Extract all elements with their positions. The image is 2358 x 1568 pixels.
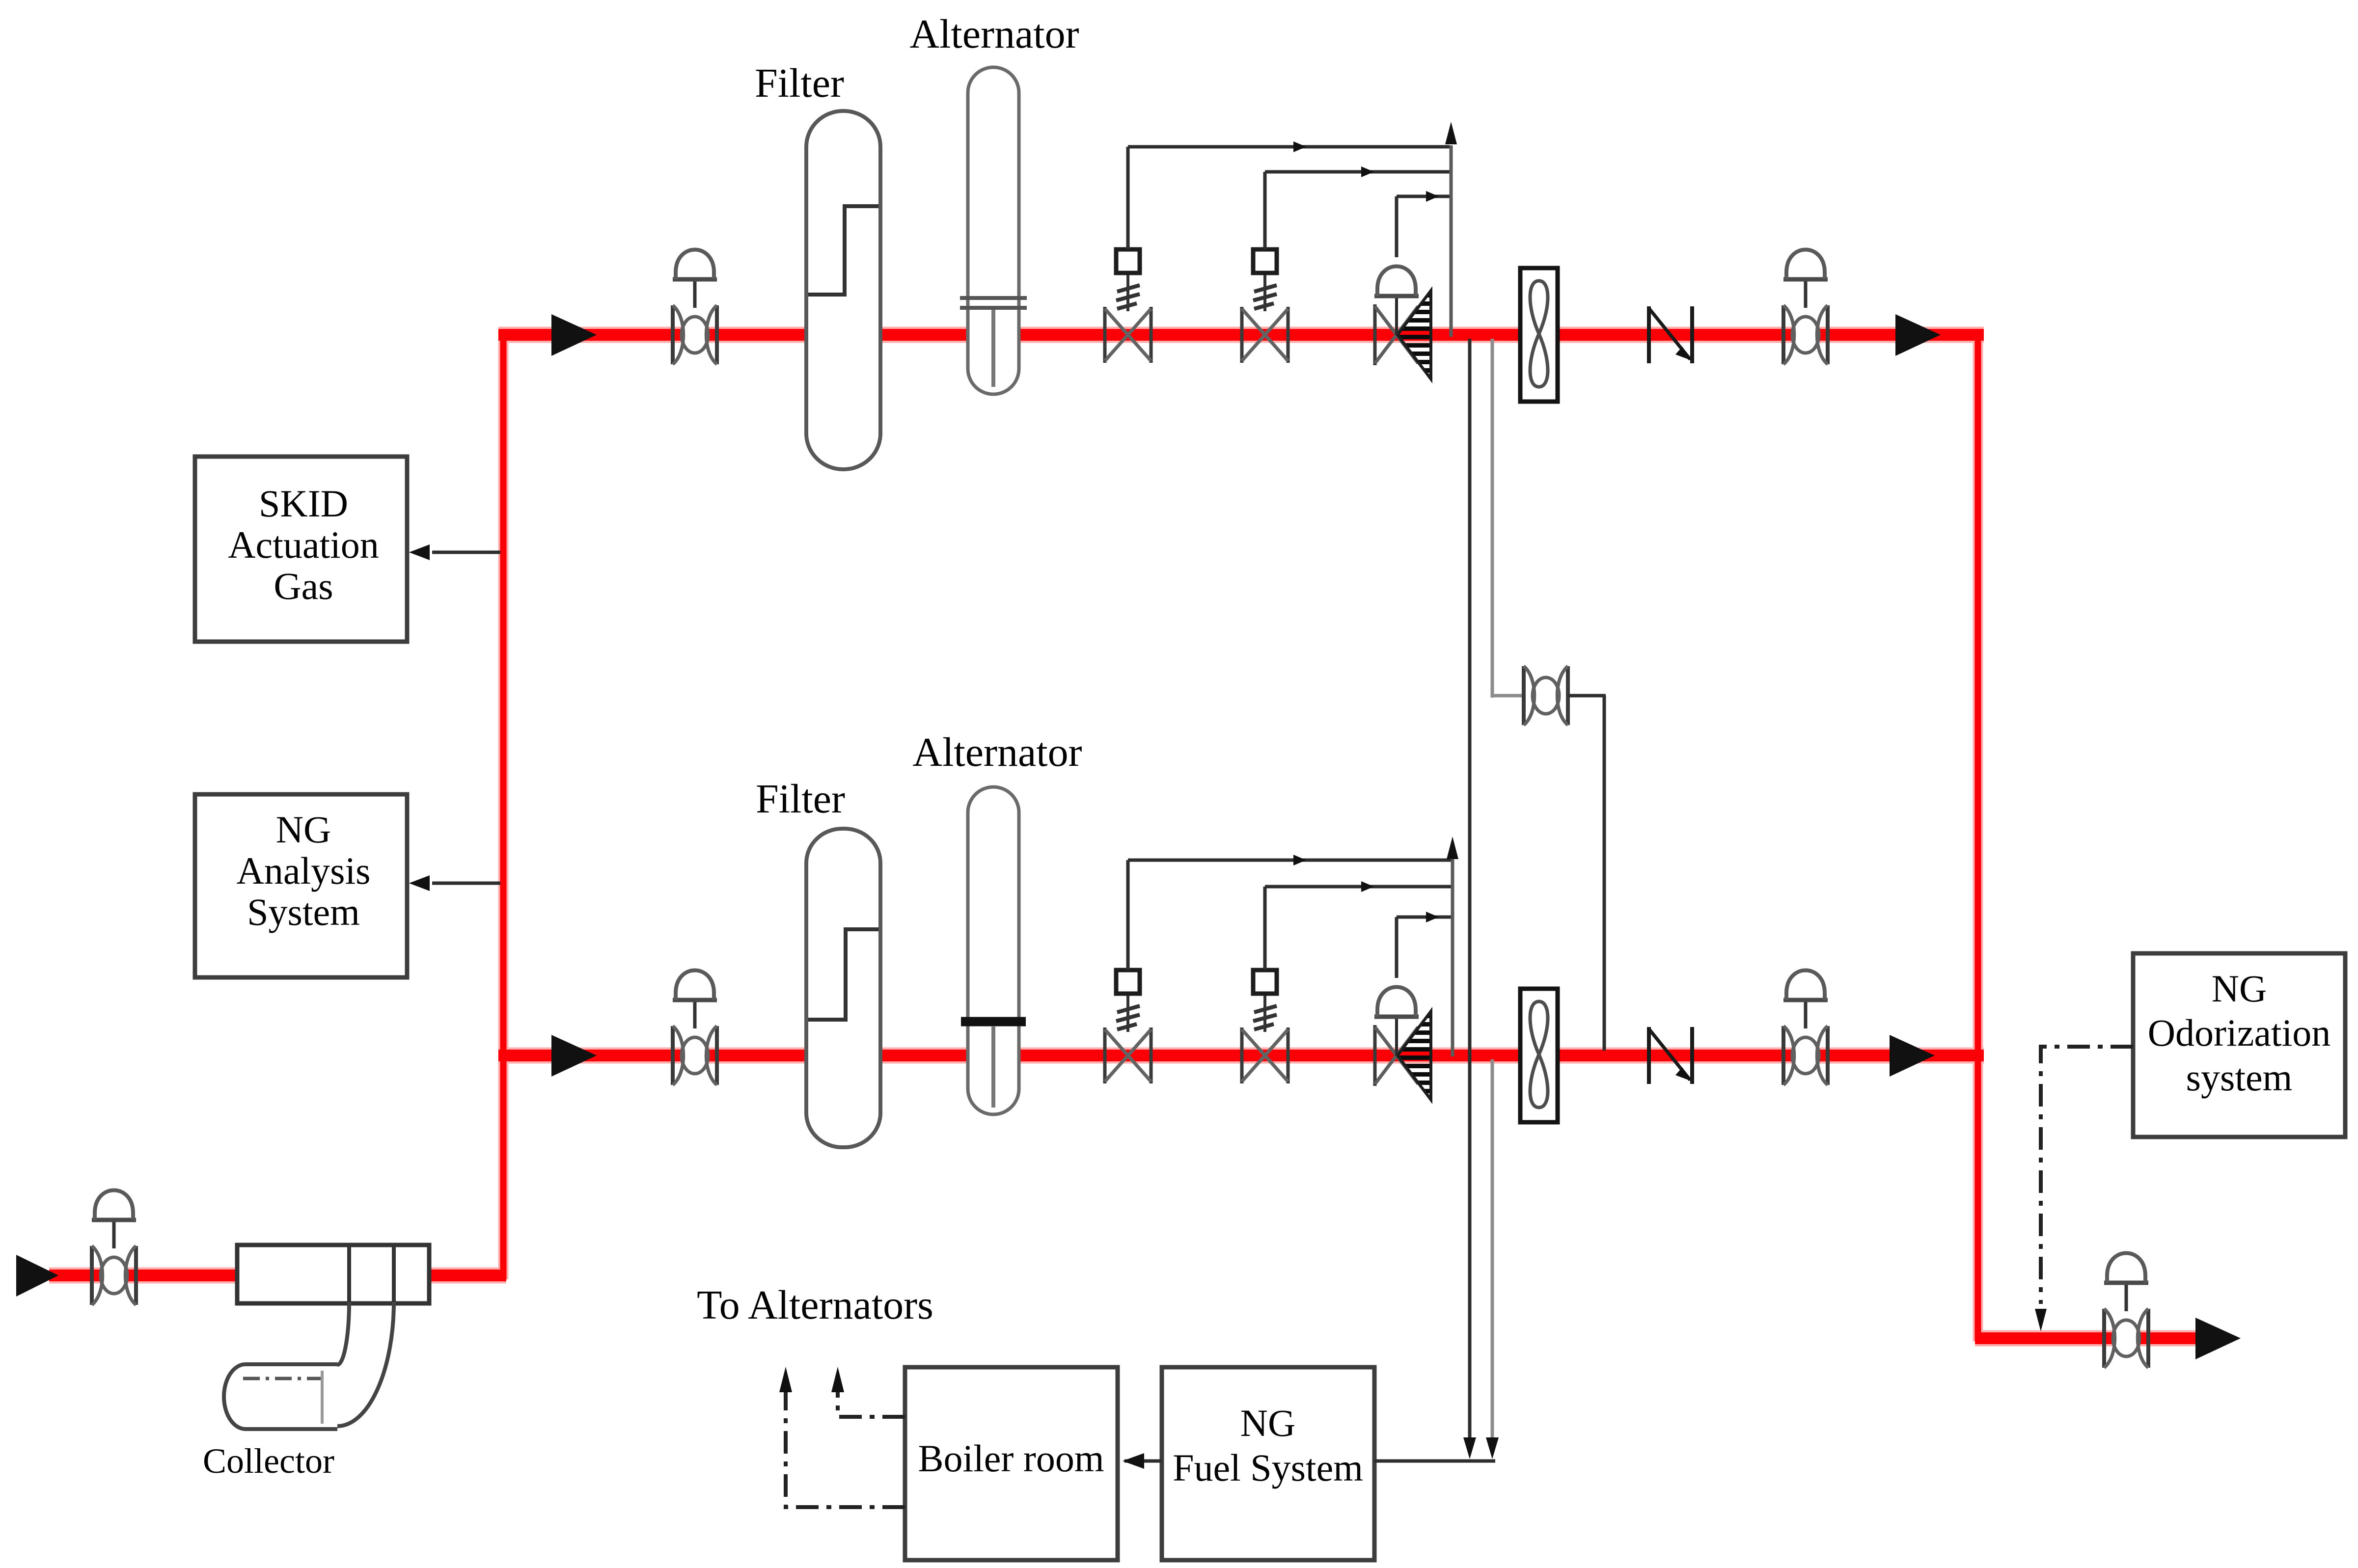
text SKID Actuation Gas <box>228 482 379 607</box>
svg-text:NG: NG <box>2212 967 2267 1010</box>
svg-text:To Alternators: To Alternators <box>697 1282 933 1328</box>
wire red inlet line <box>49 1270 506 1281</box>
arrow into SKID box <box>409 544 430 560</box>
flow arrow outlet <box>2195 1318 2241 1359</box>
svg-text:NG: NG <box>276 808 331 851</box>
signal drop line to fuel system from top train <box>1468 339 1472 1441</box>
regulator top train with dome actuator <box>1374 267 1431 379</box>
wire red outlet line <box>1975 1332 2200 1344</box>
flow arrow inlet <box>16 1255 58 1297</box>
svg-text:Gas: Gas <box>274 565 333 607</box>
valve V1 top inlet ball valve with actuator <box>673 250 717 365</box>
svg-text:Filter: Filter <box>755 60 844 106</box>
svg-text:Analysis: Analysis <box>237 849 371 892</box>
wire red halo underlay <box>49 330 2200 1341</box>
flow arrow bottom train end <box>1890 1035 1935 1077</box>
filter vessel bottom train <box>806 829 880 1147</box>
arrow into boiler room <box>1123 1453 1144 1469</box>
signal riser from PSV-B bottom <box>1263 887 1267 970</box>
box NG Odorization system <box>2133 953 2345 1137</box>
bypass line left segment <box>1492 694 1524 698</box>
box NG Fuel System <box>1162 1367 1374 1560</box>
collector body <box>237 1245 429 1303</box>
svg-text:Alternator: Alternator <box>912 730 1082 775</box>
dash-dot odorization line <box>2041 1047 2133 1304</box>
vent arrow up top <box>1445 122 1457 144</box>
sense line C top <box>1397 195 1450 198</box>
flow meter top train <box>1520 268 1558 402</box>
svg-text:Collector: Collector <box>203 1441 334 1481</box>
sense line A bottom <box>1128 859 1451 862</box>
sense line B top <box>1265 170 1450 174</box>
arrow into NG Analysis box <box>409 875 430 891</box>
sense arrow B top <box>1361 166 1374 177</box>
wire red right header vertical <box>1975 330 1981 1341</box>
svg-text:system: system <box>2186 1056 2293 1099</box>
signal drop from bottom train to fuel system <box>1491 1059 1494 1441</box>
valve PSV-A bottom spring pilot valve <box>1105 970 1151 1083</box>
arrow up alternators 2 <box>779 1367 792 1392</box>
filter vessel top train <box>806 111 880 469</box>
svg-text:Fuel System: Fuel System <box>1173 1446 1363 1489</box>
svg-text:Boiler room: Boiler room <box>918 1437 1104 1480</box>
sense arrow C bottom <box>1426 912 1439 922</box>
wire red top train line <box>498 329 1984 341</box>
check valve bottom train <box>1649 1027 1692 1084</box>
signal riser from PSV-A top <box>1126 147 1130 249</box>
signal riser from PSV-A bottom <box>1126 860 1130 970</box>
fuel header line <box>1374 1460 1495 1463</box>
valve V2 top outlet ball valve with actuator <box>1783 250 1828 365</box>
sense collector vertical top with tap to line <box>1450 145 1453 337</box>
dash-dot line boiler to alternators 1 <box>838 1392 905 1417</box>
sense line A top <box>1128 145 1450 149</box>
bypass drop to bottom train <box>1603 696 1606 1051</box>
tap line to SKID box <box>432 551 500 554</box>
text NG Analysis System <box>237 808 371 933</box>
sense line B bottom <box>1265 885 1451 889</box>
box Boiler room <box>905 1367 1118 1560</box>
svg-text:NG: NG <box>1240 1402 1296 1444</box>
arrow down signal line 2 <box>1486 1437 1499 1459</box>
bypass line right segment <box>1568 694 1606 698</box>
flow arrow bottom train start <box>551 1035 597 1077</box>
sense collector vertical bottom with tap to line <box>1451 859 1454 1056</box>
sense arrow C top <box>1426 191 1439 202</box>
flow arrow top train end <box>1895 314 1941 356</box>
link line fuel system to boiler <box>1124 1460 1162 1463</box>
collector bottom cylinder <box>224 1364 337 1429</box>
svg-text:System: System <box>247 891 360 933</box>
wire red left header vertical <box>500 330 507 1279</box>
arrow down odorization <box>2035 1309 2047 1331</box>
inlet valve with actuator <box>92 1190 136 1305</box>
sense arrow A top <box>1293 141 1306 152</box>
check valve top train <box>1649 306 1692 363</box>
bypass drop from top train <box>1491 339 1494 698</box>
sense arrow B bottom <box>1361 881 1374 892</box>
arrow up alternators 1 <box>831 1367 844 1392</box>
text NG Fuel System <box>1173 1402 1363 1489</box>
svg-text:Actuation: Actuation <box>228 523 379 566</box>
valve V2 bottom outlet ball valve with actuator <box>1783 971 1828 1085</box>
alternator vessel bottom train <box>961 787 1026 1114</box>
svg-text:Alternator: Alternator <box>909 11 1079 57</box>
bypass valve <box>1524 666 1568 725</box>
valve PSV-A top spring pilot valve <box>1105 249 1151 363</box>
regulator bottom train with dome actuator <box>1374 987 1431 1100</box>
signal riser from regulator dome bottom <box>1395 917 1398 978</box>
arrow down signal line 1 <box>1463 1437 1476 1459</box>
box SKID Actuation Gas <box>195 457 407 642</box>
vent arrow up bottom <box>1447 837 1458 859</box>
dash-dot line boiler to alternators 2 <box>786 1392 905 1507</box>
outlet valve with actuator <box>2104 1253 2148 1368</box>
svg-text:Odorization: Odorization <box>2148 1011 2331 1054</box>
flow meter bottom train <box>1520 989 1558 1122</box>
valve PSV-B bottom spring pilot valve <box>1242 970 1288 1083</box>
signal riser from regulator dome top <box>1395 196 1398 257</box>
valve PSV-B top spring pilot valve <box>1242 249 1288 363</box>
sense arrow A bottom <box>1293 855 1306 865</box>
svg-text:Filter: Filter <box>756 776 845 822</box>
tap line to NG Analysis box <box>432 882 500 885</box>
wire red bottom train line <box>498 1050 1984 1061</box>
flow arrow top train start <box>551 314 597 356</box>
signal riser from PSV-B top <box>1263 172 1267 249</box>
collector drop bend pipe <box>337 1302 394 1426</box>
box NG Analysis System <box>195 794 407 977</box>
sense line C bottom <box>1397 916 1451 919</box>
valve V1 bottom inlet ball valve with actuator <box>673 971 717 1085</box>
svg-text:SKID: SKID <box>259 482 348 525</box>
text NG Odorization system <box>2148 967 2331 1099</box>
alternator vessel top train <box>960 67 1027 394</box>
